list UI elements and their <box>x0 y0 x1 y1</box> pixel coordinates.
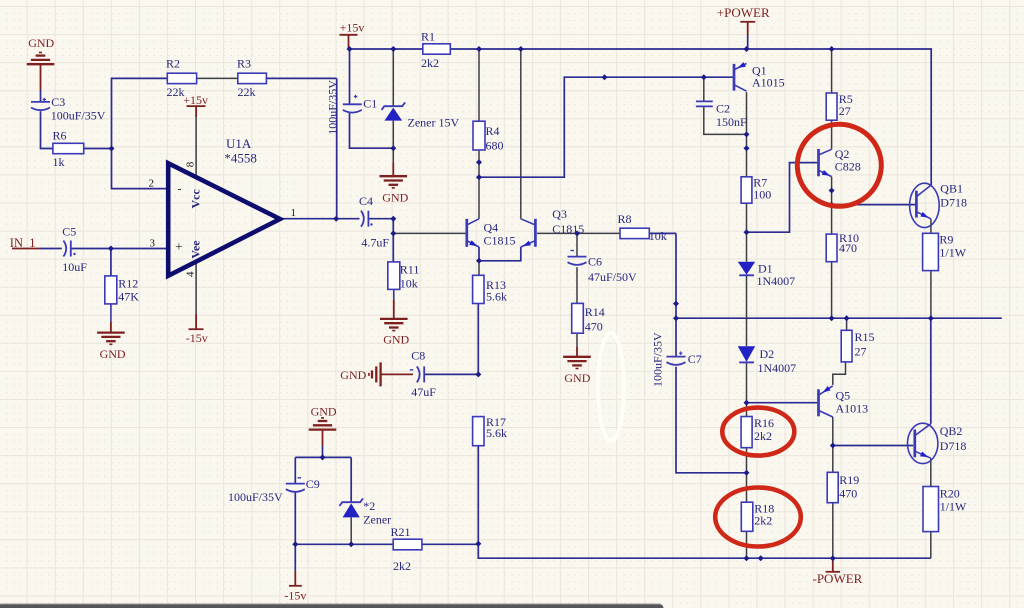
svg-text:R15: R15 <box>855 330 875 344</box>
svg-text:+POWER: +POWER <box>717 5 770 20</box>
svg-text:150nF: 150nF <box>716 115 747 129</box>
svg-text:GND: GND <box>340 368 366 382</box>
svg-text:47K: 47K <box>118 290 139 304</box>
svg-text:R1: R1 <box>421 30 435 44</box>
svg-text:*2: *2 <box>363 499 375 513</box>
svg-text:QB2: QB2 <box>940 424 963 438</box>
svg-text:27: 27 <box>855 345 867 359</box>
svg-text:3: 3 <box>150 237 156 249</box>
svg-text:D718: D718 <box>940 439 967 453</box>
svg-text:10uF: 10uF <box>62 260 87 274</box>
svg-text:4.7uF: 4.7uF <box>361 235 389 249</box>
svg-text:C1815: C1815 <box>552 222 584 236</box>
svg-text:Zener: Zener <box>363 512 391 526</box>
svg-text:-POWER: -POWER <box>813 571 863 586</box>
svg-text:IN_1: IN_1 <box>10 236 36 250</box>
svg-text:Zener 15V: Zener 15V <box>408 116 460 130</box>
svg-text:1/1W: 1/1W <box>940 500 967 514</box>
svg-text:Q4: Q4 <box>484 221 499 235</box>
svg-text:10k: 10k <box>649 229 667 243</box>
svg-text:+15v: +15v <box>183 93 208 107</box>
svg-text:100uF/35V: 100uF/35V <box>326 80 340 135</box>
svg-text:C1: C1 <box>363 96 377 110</box>
svg-text:D718: D718 <box>940 196 967 210</box>
svg-text:Vee: Vee <box>189 240 203 259</box>
svg-text:27: 27 <box>839 104 851 118</box>
svg-text:1/1W: 1/1W <box>939 246 966 260</box>
svg-text:C828: C828 <box>835 159 861 173</box>
svg-text:100uF/35V: 100uF/35V <box>651 332 665 387</box>
svg-text:2k2: 2k2 <box>393 559 411 573</box>
svg-text:R12: R12 <box>118 277 138 291</box>
svg-text:2k2: 2k2 <box>421 56 439 70</box>
svg-text:A1013: A1013 <box>836 402 869 416</box>
svg-text:+15v: +15v <box>340 21 365 35</box>
svg-text:5.6k: 5.6k <box>486 290 507 304</box>
svg-text:R6: R6 <box>53 129 67 143</box>
svg-text:A1015: A1015 <box>752 75 785 89</box>
svg-text:Q3: Q3 <box>552 207 567 221</box>
svg-text:Vcc: Vcc <box>189 189 203 209</box>
svg-text:2k2: 2k2 <box>754 429 772 443</box>
svg-text:C7: C7 <box>688 352 702 366</box>
svg-text:2: 2 <box>149 178 155 190</box>
svg-text:1N4007: 1N4007 <box>757 274 796 288</box>
svg-text:GND: GND <box>100 347 126 361</box>
svg-text:GND: GND <box>311 405 337 419</box>
svg-text:+: + <box>175 239 182 254</box>
svg-text:R19: R19 <box>839 473 859 487</box>
svg-text:1k: 1k <box>53 155 65 169</box>
svg-text:R3: R3 <box>237 57 251 71</box>
svg-text:100uF/35V: 100uF/35V <box>51 109 106 123</box>
svg-text:C8: C8 <box>411 349 425 363</box>
svg-text:U1A: U1A <box>226 136 252 151</box>
svg-text:470: 470 <box>585 319 603 333</box>
svg-text:5.6k: 5.6k <box>486 426 507 440</box>
svg-text:C2: C2 <box>716 101 730 115</box>
svg-text:R16: R16 <box>754 416 774 430</box>
svg-text:-15v: -15v <box>186 331 208 345</box>
svg-text:8: 8 <box>185 161 197 167</box>
svg-text:C4: C4 <box>359 194 373 208</box>
svg-text:R8: R8 <box>618 212 632 226</box>
svg-text:C6: C6 <box>588 255 602 269</box>
svg-text:100: 100 <box>753 187 771 201</box>
svg-text:22k: 22k <box>238 85 256 99</box>
svg-text:22k: 22k <box>167 85 185 99</box>
svg-text:GND: GND <box>564 371 590 385</box>
svg-text:C9: C9 <box>306 477 320 491</box>
svg-text:R9: R9 <box>939 232 953 246</box>
svg-text:Q5: Q5 <box>836 389 851 403</box>
svg-text:4: 4 <box>185 271 197 277</box>
svg-text:-: - <box>178 181 182 195</box>
svg-text:*4558: *4558 <box>224 151 257 166</box>
svg-text:R11: R11 <box>400 263 420 277</box>
svg-text:100uF/35V: 100uF/35V <box>228 490 283 504</box>
svg-text:GND: GND <box>382 190 408 204</box>
svg-text:470: 470 <box>839 241 857 255</box>
svg-text:47uF: 47uF <box>411 385 436 399</box>
svg-text:1: 1 <box>291 207 297 219</box>
svg-text:R2: R2 <box>166 57 180 71</box>
svg-text:C1815: C1815 <box>484 234 516 248</box>
svg-text:R21: R21 <box>391 525 411 539</box>
svg-text:C3: C3 <box>51 95 65 109</box>
svg-text:GND: GND <box>28 36 54 50</box>
svg-text:1N4007: 1N4007 <box>758 361 797 375</box>
svg-text:R20: R20 <box>940 487 960 501</box>
svg-text:47uF/50V: 47uF/50V <box>588 270 637 284</box>
svg-text:10k: 10k <box>400 276 418 290</box>
svg-text:D2: D2 <box>760 347 775 361</box>
svg-text:680: 680 <box>486 138 504 152</box>
svg-text:GND: GND <box>383 333 409 347</box>
svg-text:C5: C5 <box>62 225 76 239</box>
svg-text:2k2: 2k2 <box>754 513 772 527</box>
svg-text:QB1: QB1 <box>940 181 963 195</box>
svg-text:R14: R14 <box>585 305 605 319</box>
svg-text:470: 470 <box>839 487 857 501</box>
svg-text:R4: R4 <box>486 124 500 138</box>
svg-text:-15v: -15v <box>284 589 306 603</box>
